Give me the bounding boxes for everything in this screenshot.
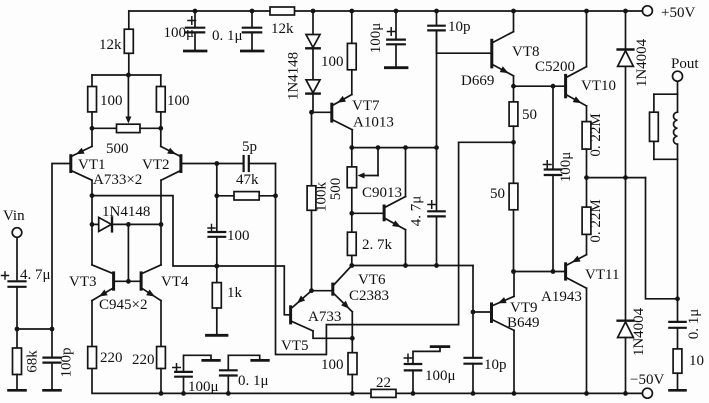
- transistor VT2 (A733 PNP): [161, 128, 217, 265]
- wire -50V bottom rail: [92, 368, 642, 393]
- svg-text:0. 22M: 0. 22M: [588, 113, 604, 156]
- svg-text:100: 100: [100, 93, 123, 109]
- svg-text:0. 1μ: 0. 1μ: [212, 28, 243, 44]
- node dots bottom rail: [159, 391, 164, 396]
- terminal Pout: [673, 71, 683, 94]
- svg-text:VT8: VT8: [512, 44, 540, 60]
- wire emitter supply bus VT1 VT2: [92, 74, 161, 76]
- output network R parallel L: [650, 94, 678, 159]
- potentiometer 500 wiper arrow: [125, 75, 131, 124]
- wire VT1 collector to VT5 base: [92, 196, 290, 315]
- svg-text:VT5: VT5: [281, 338, 309, 354]
- transistor VT5 (A733 PNP): [291, 291, 353, 339]
- label plus 100u bottom mid: [404, 354, 412, 362]
- svg-text:C2383: C2383: [349, 288, 389, 304]
- resistor 1k: [212, 266, 221, 334]
- node dots input: [15, 327, 20, 332]
- ground bar 0.1u top: [241, 50, 263, 53]
- svg-text:100μ: 100μ: [425, 368, 456, 384]
- wire VAS lower node: [352, 265, 473, 267]
- svg-text:10p: 10p: [448, 19, 471, 35]
- capacitor 5p: [217, 156, 276, 171]
- svg-text:100μ: 100μ: [368, 23, 384, 54]
- wire +50V top rail: [129, 10, 642, 12]
- svg-text:VT11: VT11: [585, 267, 619, 283]
- diode 1N4148 mirror: [92, 217, 161, 231]
- svg-text:100: 100: [227, 228, 250, 244]
- terminal -50V: [642, 388, 652, 398]
- svg-text:100μ: 100μ: [163, 25, 194, 41]
- wire feedback tap long path: [276, 142, 514, 354]
- terminal Vin: [12, 228, 22, 280]
- svg-text:68k: 68k: [25, 350, 41, 373]
- ground bar 68k: [9, 389, 26, 392]
- resistor 50 lower: [509, 142, 518, 271]
- svg-text:12k: 12k: [271, 21, 294, 37]
- svg-text:Vin: Vin: [3, 208, 25, 224]
- resistor 0.22M lower: [582, 207, 591, 255]
- ground bar zobel: [670, 389, 686, 392]
- potentiometer 500 vertical: [347, 148, 356, 233]
- svg-text:100μ: 100μ: [188, 379, 219, 395]
- svg-text:VT2: VT2: [142, 157, 170, 173]
- capacitor 0.1u rail top: [243, 11, 261, 50]
- svg-text:100μ: 100μ: [558, 152, 574, 183]
- capacitor 10p top: [428, 11, 444, 211]
- resistor 50 upper: [509, 86, 518, 142]
- label plus 100u bootstrap: [544, 161, 552, 169]
- resistor 22 on rail: [371, 389, 396, 397]
- resistor 100 right: [156, 75, 165, 128]
- resistor 10 zobel: [673, 349, 682, 389]
- svg-text:22: 22: [376, 375, 391, 391]
- svg-text:500: 500: [106, 141, 129, 157]
- wire VT8 emitter to VT10 base: [514, 85, 565, 87]
- svg-text:100p: 100p: [59, 348, 75, 378]
- svg-text:47k: 47k: [236, 172, 259, 188]
- svg-text:VT10: VT10: [581, 78, 616, 94]
- svg-text:100: 100: [321, 357, 344, 373]
- capacitor 100u decouple bottom left: [175, 355, 211, 393]
- wire RL bottom to output: [677, 159, 679, 298]
- svg-text:50: 50: [490, 186, 505, 202]
- diode 1N4148 lower: [306, 80, 320, 113]
- wire input node to VT1 base: [17, 164, 70, 330]
- svg-text:100: 100: [321, 54, 344, 70]
- resistor 47k: [217, 164, 276, 201]
- capacitor 0.1u decouple bottom left: [220, 355, 260, 393]
- resistor 68k: [13, 329, 22, 390]
- potentiometer 500 horizontal: [92, 124, 161, 132]
- node dots top rail: [193, 9, 198, 14]
- resistor 12k horizontal on rail: [270, 7, 295, 15]
- svg-text:VT1: VT1: [78, 157, 106, 173]
- svg-text:−50V: −50V: [630, 372, 664, 388]
- transistor VT6 (C2383 NPN): [312, 266, 353, 353]
- terminal +50V: [642, 6, 652, 16]
- transistor VT11 (A1943 PNP): [566, 255, 587, 394]
- wire output node: [587, 178, 678, 299]
- ground bar 1k: [207, 334, 228, 337]
- node dots feedback: [214, 161, 219, 166]
- svg-text:1N4004: 1N4004: [634, 38, 650, 87]
- svg-text:1N4148: 1N4148: [286, 52, 302, 100]
- wire VAS top node: [352, 147, 437, 149]
- capacitor 100u bootstrap: [545, 86, 561, 271]
- svg-text:VT7: VT7: [352, 98, 380, 114]
- capacitor 100u decouple bottom mid: [405, 348, 440, 393]
- capacitor 100 electrolytic feedback: [209, 196, 226, 266]
- resistor 100 left: [88, 75, 97, 128]
- capacitor 100u rail mid rotated label: [387, 11, 405, 67]
- svg-text:VT9: VT9: [510, 300, 538, 316]
- diode 1N4148 upper: [306, 11, 320, 80]
- svg-text:500: 500: [328, 178, 344, 201]
- svg-text:2. 7k: 2. 7k: [362, 237, 393, 253]
- resistor 220 right: [157, 347, 166, 394]
- label plus feedback cap: [208, 225, 215, 232]
- transistor C9013 NPN: [352, 148, 406, 266]
- svg-text:A1943: A1943: [541, 289, 582, 305]
- svg-text:12k: 12k: [99, 37, 122, 53]
- svg-text:5p: 5p: [242, 139, 257, 155]
- ground bar 100p: [44, 389, 61, 392]
- transistor VT10 (C5200 NPN): [566, 11, 587, 122]
- svg-text:B649: B649: [507, 315, 540, 331]
- svg-text:4. 7μ: 4. 7μ: [20, 267, 51, 283]
- transistor VT1 (A733 PNP): [71, 128, 92, 265]
- node dots mid: [309, 110, 314, 115]
- transistor VT7 (A1013 PNP): [312, 95, 353, 148]
- capacitor 4.7u VAS: [428, 211, 444, 265]
- resistor 100k: [307, 112, 316, 290]
- svg-text:1N4148: 1N4148: [102, 204, 150, 220]
- svg-text:VT3: VT3: [69, 274, 97, 290]
- svg-text:VT6: VT6: [358, 272, 386, 288]
- svg-text:10: 10: [689, 353, 704, 369]
- label plus 100u bottom left: [173, 364, 181, 372]
- svg-text:10p: 10p: [484, 357, 507, 373]
- transistor VT3 (C945 NPN): [92, 265, 114, 347]
- resistor 2.7k: [347, 232, 356, 265]
- svg-text:100: 100: [167, 93, 190, 109]
- diode 1N4004 lower: [618, 178, 634, 394]
- svg-text:Pout: Pout: [671, 56, 699, 72]
- potentiometer 500 wiper: [358, 148, 379, 179]
- ground bar 100u bottom left: [203, 359, 220, 362]
- svg-text:C9013: C9013: [362, 185, 402, 201]
- svg-text:220: 220: [132, 352, 155, 368]
- ground bar 100u mid: [385, 66, 407, 69]
- label plus 100u top left: [188, 17, 196, 25]
- resistor 100 VT7 emitter: [347, 11, 356, 95]
- svg-text:A1013: A1013: [353, 115, 394, 131]
- node dots VAS row: [349, 263, 354, 268]
- ground bar 100u top left: [184, 50, 206, 53]
- label plus 100u mid: [388, 28, 396, 36]
- svg-text:50: 50: [522, 107, 537, 123]
- capacitor 4.7u input: [9, 281, 26, 329]
- label plus 4.7u VAS: [428, 201, 436, 209]
- svg-text:4. 7μ: 4. 7μ: [409, 196, 425, 227]
- wire VT11 base tie: [514, 271, 565, 273]
- svg-text:1k: 1k: [227, 285, 243, 301]
- svg-text:1N4004: 1N4004: [631, 307, 647, 356]
- resistor 100 VT6 emitter: [348, 353, 357, 394]
- svg-text:C945×2: C945×2: [99, 297, 147, 313]
- label 4.7u polarity plus: [2, 272, 9, 279]
- more groups appended below: [92, 7, 514, 355]
- resistor 12k vertical: [124, 11, 133, 75]
- transistor VT8 (D669 NPN): [437, 11, 514, 86]
- capacitor 100u rail top left: [186, 11, 204, 50]
- diode 1N4004 upper: [618, 11, 634, 178]
- svg-text:A733×2: A733×2: [93, 172, 142, 188]
- svg-text:0. 1μ: 0. 1μ: [238, 373, 269, 389]
- resistor 0.22M upper: [582, 122, 591, 208]
- svg-text:0. 22M: 0. 22M: [588, 199, 604, 242]
- capacitor 100p: [44, 329, 61, 390]
- ground bar 0.1u bottom left: [252, 359, 268, 362]
- node dots front end: [126, 73, 131, 78]
- resistor 220 left: [88, 347, 97, 369]
- wire VT3 VT4 base tie: [115, 224, 141, 281]
- svg-text:D669: D669: [461, 73, 494, 89]
- svg-text:+50V: +50V: [661, 5, 695, 21]
- transistor VT9 (B649 PNP): [473, 272, 514, 394]
- svg-text:A733: A733: [308, 309, 341, 325]
- capacitor 0.1u zobel: [669, 299, 685, 349]
- transistor VT4 (C945 NPN): [141, 265, 161, 347]
- svg-text:0. 1μ: 0. 1μ: [686, 309, 702, 340]
- svg-text:VT4: VT4: [161, 274, 189, 290]
- ground bar 100u bottom mid: [431, 345, 449, 348]
- inductor L output coil: [674, 94, 678, 159]
- svg-text:C5200: C5200: [535, 59, 575, 75]
- svg-text:220: 220: [100, 350, 123, 366]
- wire to VT9 base: [472, 266, 474, 313]
- node dots output stage: [511, 84, 516, 89]
- capacitor 10p VT9: [465, 312, 482, 393]
